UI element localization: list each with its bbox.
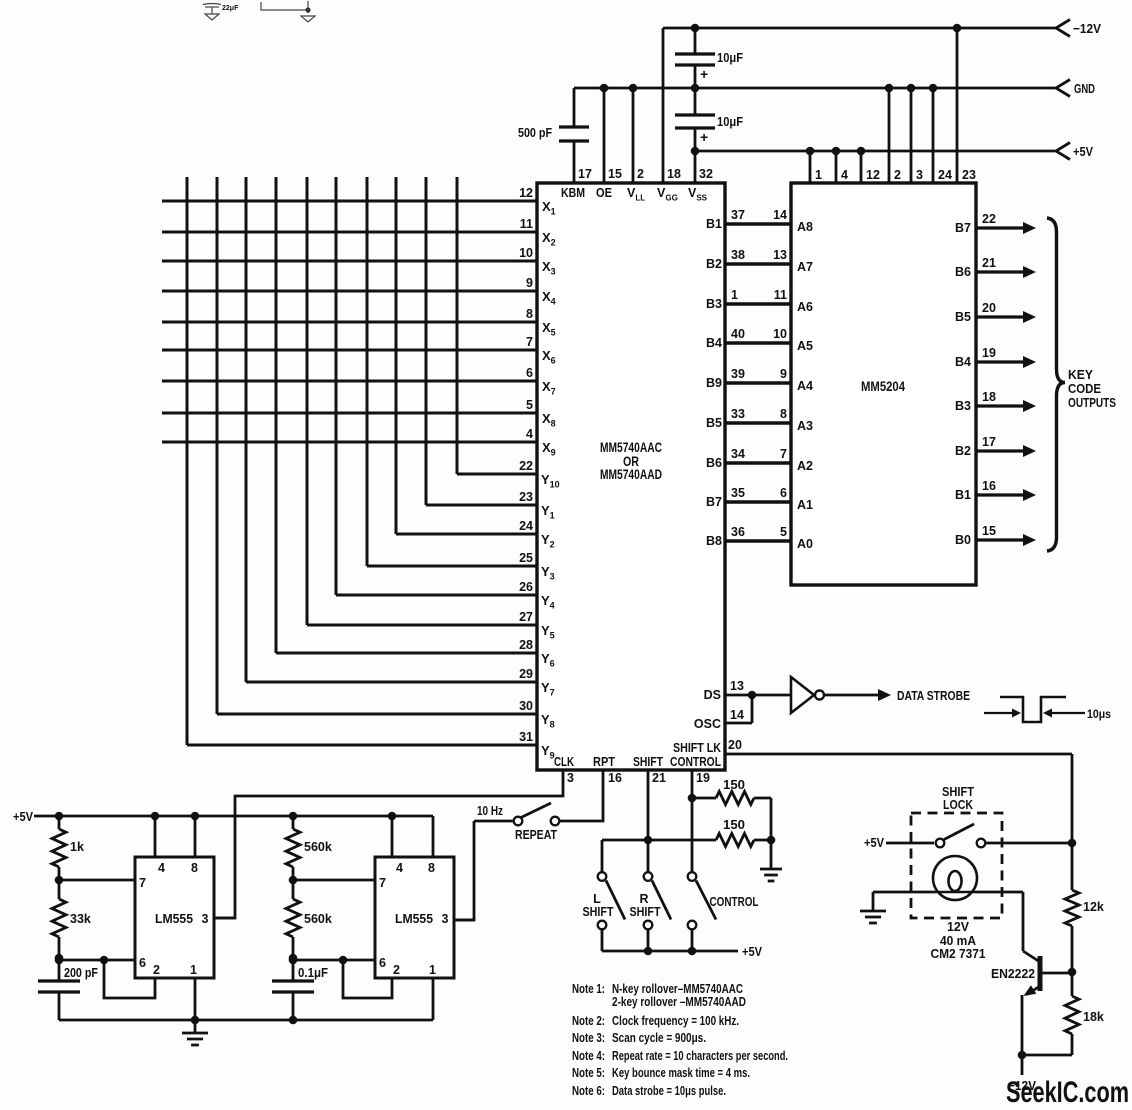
svg-text:35: 35 <box>731 486 745 500</box>
svg-text:560k: 560k <box>304 840 332 854</box>
svg-text:13: 13 <box>730 679 744 693</box>
svg-text:12V: 12V <box>947 920 970 934</box>
svg-text:15: 15 <box>982 524 996 538</box>
svg-text:37: 37 <box>731 208 745 222</box>
svg-text:B9: B9 <box>706 376 722 390</box>
svg-text:8: 8 <box>191 861 198 875</box>
svg-text:21: 21 <box>652 771 666 785</box>
svg-text:20: 20 <box>982 301 996 315</box>
svg-text:CONTROL: CONTROL <box>670 755 721 769</box>
svg-text:N-key rollover–MM5740AAC: N-key rollover–MM5740AAC <box>612 982 743 996</box>
svg-text:20: 20 <box>728 738 742 752</box>
svg-text:200 pF: 200 pF <box>64 966 98 980</box>
svg-text:150: 150 <box>723 778 745 792</box>
svg-text:GND: GND <box>1074 81 1095 96</box>
svg-text:LM555: LM555 <box>395 911 433 926</box>
svg-text:560k: 560k <box>304 912 332 926</box>
svg-text:30: 30 <box>519 699 533 713</box>
svg-text:23: 23 <box>962 168 976 182</box>
svg-text:6: 6 <box>780 486 787 500</box>
svg-text:B7: B7 <box>706 495 722 509</box>
svg-text:21: 21 <box>982 256 996 270</box>
svg-text:4: 4 <box>841 168 848 182</box>
svg-text:A2: A2 <box>797 459 813 473</box>
svg-text:MM5740AAD: MM5740AAD <box>600 467 662 482</box>
svg-text:17: 17 <box>578 167 592 181</box>
svg-text:LOCK: LOCK <box>943 798 973 812</box>
svg-text:19: 19 <box>982 346 996 360</box>
svg-text:1: 1 <box>429 963 436 977</box>
svg-text:8: 8 <box>428 861 435 875</box>
svg-text:Key bounce mask time = 4 ms.: Key bounce mask time = 4 ms. <box>612 1066 750 1080</box>
svg-text:OUTPUTS: OUTPUTS <box>1068 396 1116 410</box>
svg-text:+: + <box>700 66 708 82</box>
svg-text:18: 18 <box>982 390 996 404</box>
svg-text:A5: A5 <box>797 339 813 353</box>
svg-text:7: 7 <box>379 876 386 890</box>
svg-text:Note 1:: Note 1: <box>572 982 605 996</box>
svg-text:8: 8 <box>780 407 787 421</box>
svg-text:25: 25 <box>519 551 533 565</box>
svg-text:L: L <box>593 892 601 906</box>
svg-text:B1: B1 <box>706 217 722 231</box>
svg-text:CONTROL: CONTROL <box>710 895 759 909</box>
svg-text:B3: B3 <box>706 297 722 311</box>
svg-text:3: 3 <box>916 168 923 182</box>
svg-text:A8: A8 <box>797 220 813 234</box>
svg-text:B1: B1 <box>955 488 971 502</box>
svg-text:A0: A0 <box>797 537 813 551</box>
svg-text:1: 1 <box>731 288 738 302</box>
svg-text:10μs: 10μs <box>1087 707 1111 721</box>
svg-text:500 pF: 500 pF <box>518 125 552 140</box>
svg-text:CODE: CODE <box>1068 382 1101 396</box>
svg-text:Data strobe = 10μs pulse.: Data strobe = 10μs pulse. <box>612 1084 726 1098</box>
svg-text:12: 12 <box>866 168 880 182</box>
svg-text:B0: B0 <box>955 533 971 547</box>
svg-text:14: 14 <box>730 708 744 722</box>
svg-text:2: 2 <box>637 167 644 181</box>
svg-text:7: 7 <box>139 876 146 890</box>
svg-text:OE: OE <box>596 186 612 200</box>
svg-text:B5: B5 <box>706 416 722 430</box>
svg-text:+5V: +5V <box>864 835 884 850</box>
svg-text:19: 19 <box>696 771 710 785</box>
svg-text:4: 4 <box>526 427 533 441</box>
svg-text:10: 10 <box>519 246 533 260</box>
svg-text:27: 27 <box>519 610 533 624</box>
svg-text:9: 9 <box>526 276 533 290</box>
svg-text:26: 26 <box>519 580 533 594</box>
svg-text:6: 6 <box>379 956 386 970</box>
svg-text:EN2222: EN2222 <box>991 966 1035 981</box>
svg-text:B7: B7 <box>955 221 971 235</box>
svg-text:Note 2:: Note 2: <box>572 1014 605 1028</box>
svg-text:B6: B6 <box>706 456 722 470</box>
svg-text:1k: 1k <box>70 840 84 854</box>
svg-text:9: 9 <box>780 367 787 381</box>
svg-text:150: 150 <box>723 818 745 832</box>
svg-text:+: + <box>700 129 708 145</box>
svg-text:18: 18 <box>667 167 681 181</box>
svg-text:+5V: +5V <box>1073 144 1093 159</box>
svg-text:24: 24 <box>938 168 952 182</box>
svg-text:MM5740AAC: MM5740AAC <box>600 440 662 455</box>
svg-text:13: 13 <box>773 248 787 262</box>
svg-text:2: 2 <box>894 168 901 182</box>
svg-text:+5V: +5V <box>742 944 762 959</box>
svg-text:10μF: 10μF <box>717 114 743 129</box>
svg-text:KBM: KBM <box>561 186 585 200</box>
svg-text:A3: A3 <box>797 419 813 433</box>
svg-text:22μF: 22μF <box>222 5 239 12</box>
svg-text:SHIFT: SHIFT <box>583 905 614 919</box>
svg-text:B4: B4 <box>955 355 971 369</box>
svg-text:3: 3 <box>567 771 574 785</box>
svg-text:3: 3 <box>442 912 449 926</box>
svg-text:8: 8 <box>526 307 533 321</box>
svg-text:+5V: +5V <box>13 809 33 824</box>
svg-text:4: 4 <box>158 861 165 875</box>
svg-text:12: 12 <box>519 186 533 200</box>
svg-text:33: 33 <box>731 407 745 421</box>
svg-text:10 Hz: 10 Hz <box>477 804 503 818</box>
svg-text:DATA STROBE: DATA STROBE <box>897 688 970 703</box>
svg-text:4: 4 <box>396 861 403 875</box>
svg-text:22: 22 <box>982 212 996 226</box>
svg-text:2: 2 <box>393 963 400 977</box>
svg-text:18k: 18k <box>1083 1010 1104 1024</box>
svg-text:B3: B3 <box>955 399 971 413</box>
svg-text:R: R <box>639 892 648 906</box>
svg-text:12k: 12k <box>1083 900 1104 914</box>
svg-text:A7: A7 <box>797 260 813 274</box>
svg-text:40: 40 <box>731 327 745 341</box>
svg-text:33k: 33k <box>70 912 91 926</box>
svg-text:0.1μF: 0.1μF <box>298 966 328 980</box>
svg-text:36: 36 <box>731 525 745 539</box>
svg-text:A4: A4 <box>797 379 813 393</box>
svg-text:DS: DS <box>704 688 721 702</box>
svg-text:B2: B2 <box>706 257 722 271</box>
svg-text:SHIFT: SHIFT <box>633 755 663 769</box>
svg-text:OSC: OSC <box>694 717 721 731</box>
svg-text:SHIFT LK: SHIFT LK <box>673 741 721 755</box>
svg-text:11: 11 <box>520 217 533 231</box>
svg-text:Clock frequency = 100 kHz.: Clock frequency = 100 kHz. <box>612 1014 739 1028</box>
svg-text:Repeat rate = 10 characters pe: Repeat rate = 10 characters per second. <box>612 1049 788 1063</box>
svg-text:5: 5 <box>780 525 787 539</box>
svg-text:17: 17 <box>982 435 996 449</box>
svg-text:B8: B8 <box>706 534 722 548</box>
svg-text:B2: B2 <box>955 444 971 458</box>
svg-text:31: 31 <box>519 730 533 744</box>
svg-text:Note 4:: Note 4: <box>572 1049 605 1063</box>
svg-text:B5: B5 <box>955 310 971 324</box>
svg-text:15: 15 <box>608 167 622 181</box>
svg-text:Scan cycle = 900μs.: Scan cycle = 900μs. <box>612 1031 706 1045</box>
svg-text:−12V: −12V <box>1073 21 1101 36</box>
svg-text:RPT: RPT <box>593 755 615 769</box>
svg-text:B4: B4 <box>706 336 722 350</box>
svg-text:28: 28 <box>519 638 533 652</box>
svg-text:39: 39 <box>731 367 745 381</box>
svg-text:3: 3 <box>202 912 209 926</box>
svg-text:1: 1 <box>815 168 822 182</box>
svg-text:SHIFT: SHIFT <box>942 785 974 799</box>
svg-text:LM555: LM555 <box>155 911 193 926</box>
svg-text:10μF: 10μF <box>717 50 743 65</box>
svg-text:CM2 7371: CM2 7371 <box>931 947 986 961</box>
svg-text:6: 6 <box>526 366 533 380</box>
svg-text:B6: B6 <box>955 265 971 279</box>
svg-text:11: 11 <box>774 288 787 302</box>
svg-text:16: 16 <box>608 771 622 785</box>
svg-text:SeekIC.com: SeekIC.com <box>1006 1076 1129 1109</box>
svg-text:10: 10 <box>773 327 787 341</box>
svg-text:A1: A1 <box>797 498 813 512</box>
svg-text:16: 16 <box>982 479 996 493</box>
svg-text:MM5204: MM5204 <box>861 379 905 394</box>
svg-text:KEY: KEY <box>1068 368 1094 382</box>
svg-text:7: 7 <box>526 335 533 349</box>
svg-text:2-key rollover –MM5740AAD: 2-key rollover –MM5740AAD <box>612 995 746 1009</box>
svg-text:23: 23 <box>519 490 533 504</box>
svg-text:REPEAT: REPEAT <box>515 828 557 842</box>
svg-text:34: 34 <box>731 447 745 461</box>
svg-text:7: 7 <box>780 447 787 461</box>
svg-text:5: 5 <box>526 398 533 412</box>
svg-text:1: 1 <box>190 963 197 977</box>
svg-text:22: 22 <box>519 459 533 473</box>
svg-text:CLK: CLK <box>554 755 574 769</box>
svg-text:2: 2 <box>153 963 160 977</box>
svg-text:24: 24 <box>519 519 533 533</box>
svg-text:40 mA: 40 mA <box>940 934 976 948</box>
svg-text:14: 14 <box>773 208 787 222</box>
svg-text:SHIFT: SHIFT <box>630 905 661 919</box>
svg-text:Note 6:: Note 6: <box>572 1084 605 1098</box>
svg-text:A6: A6 <box>797 300 813 314</box>
svg-text:6: 6 <box>139 956 146 970</box>
svg-text:Note 3:: Note 3: <box>572 1031 605 1045</box>
svg-text:38: 38 <box>731 248 745 262</box>
svg-text:Note 5:: Note 5: <box>572 1066 605 1080</box>
svg-text:32: 32 <box>699 167 713 181</box>
svg-text:29: 29 <box>519 667 533 681</box>
